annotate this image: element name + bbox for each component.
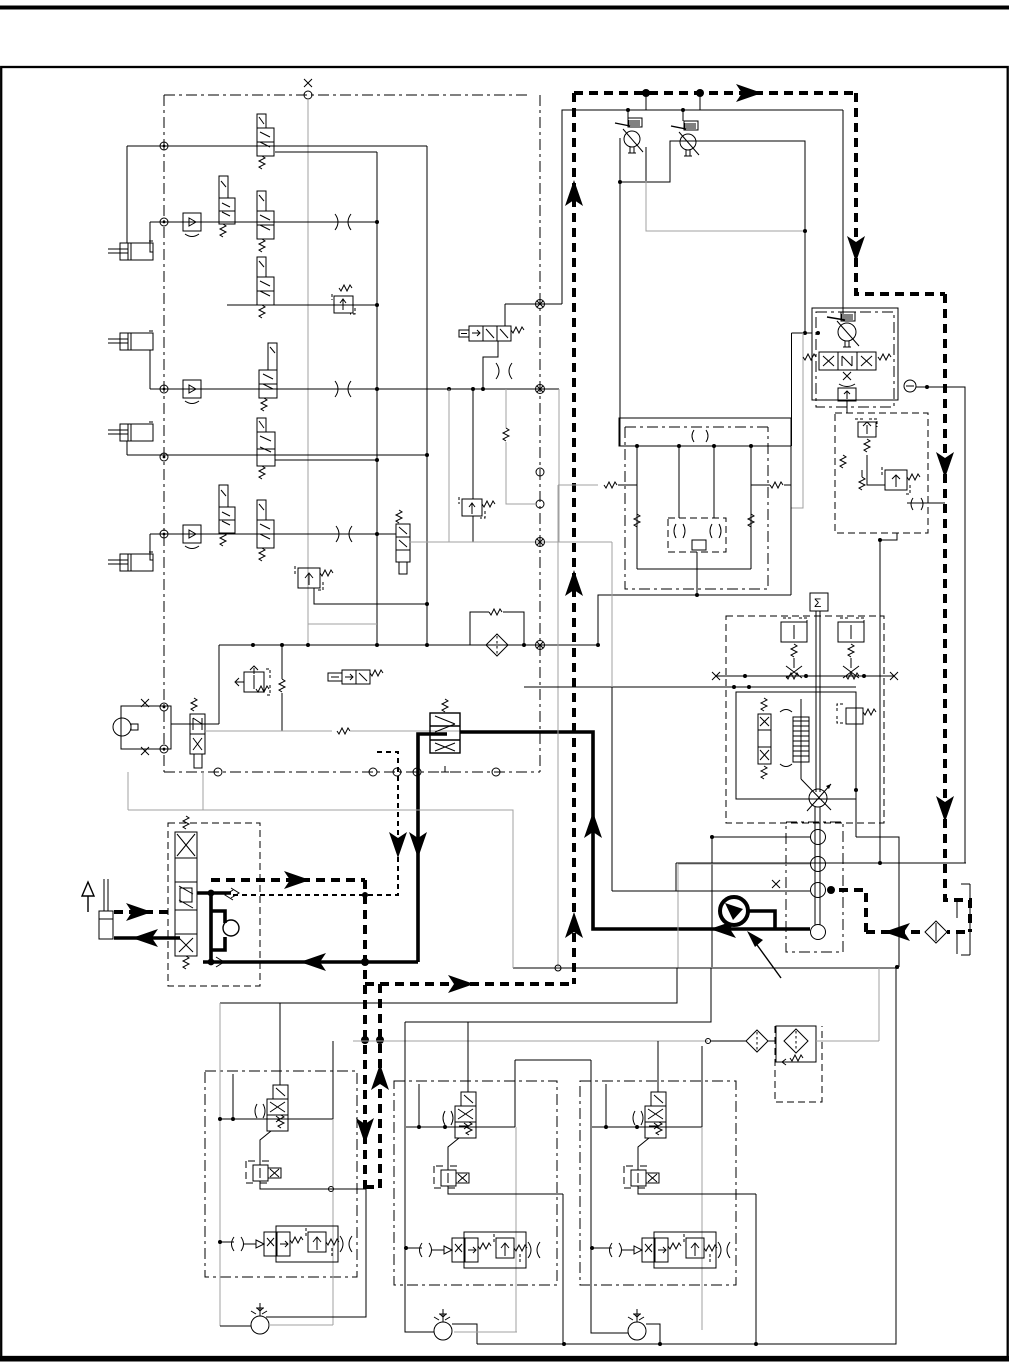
boundary dash-dot top — [164, 94, 528, 96]
junction dots y110 — [626, 108, 630, 112]
ppc internal loop — [211, 911, 225, 950]
junction dots manifold top — [635, 444, 639, 448]
junction dots c2 — [417, 1125, 421, 1129]
valve V9 vertical 3cell — [396, 510, 410, 574]
wire R4 drain — [472, 516, 474, 542]
top rule — [0, 6, 1009, 10]
flow arrow down D4b — [936, 796, 954, 822]
valve V5 — [259, 343, 277, 411]
lever bold return — [114, 936, 180, 940]
restrictor arcs row6 — [336, 526, 352, 542]
relief valve R2 — [295, 566, 333, 590]
pressure reducing valve R3 — [235, 666, 270, 695]
junction dots D5 — [361, 1036, 369, 1044]
wire supply drop — [842, 110, 844, 314]
port circledot row1 — [160, 142, 168, 150]
bold drop from servo net — [418, 734, 447, 962]
wire gray return y1041 — [353, 1040, 708, 1042]
junction dot D4 — [827, 886, 835, 894]
wire y304 — [505, 303, 562, 305]
port circles on bottom boundary — [214, 768, 222, 776]
annotation pointer — [752, 938, 781, 978]
reducing valve PRV2 — [434, 1166, 469, 1188]
wire c1 return drop — [266, 1189, 366, 1317]
wire PRV3 out — [638, 1186, 756, 1194]
solenoid valve H1 — [328, 670, 383, 684]
wire left edge drop — [619, 138, 621, 446]
wire FV1 drop — [260, 1131, 271, 1165]
port circledot row4 — [160, 385, 168, 393]
wire row5b — [275, 459, 377, 461]
wire gray y624 — [308, 623, 377, 625]
wire row3 — [227, 304, 377, 306]
svg-text:Σ: Σ — [814, 596, 821, 610]
junction dots y389 — [447, 387, 451, 391]
wire x880 — [879, 540, 881, 863]
pilot trunk D4 — [945, 294, 970, 932]
junction dots y686 — [732, 685, 736, 689]
restrictor arcs manifold — [692, 430, 708, 442]
gear pump G3 — [811, 883, 826, 898]
wire x896 long right — [756, 968, 896, 1344]
pilot trunk D6 — [211, 878, 365, 882]
bold return bottom — [203, 960, 418, 964]
junction dot row c3 — [590, 1246, 594, 1250]
spring right manifold — [770, 482, 783, 488]
wire c1 right — [332, 1041, 334, 1119]
valve V10 — [190, 698, 205, 768]
wire c2 return drop — [562, 1194, 564, 1344]
wire long y686 — [524, 686, 856, 688]
pilot trunk D4 tail — [831, 890, 866, 932]
wire F2 out gray — [816, 1040, 879, 1042]
wire pilot supply top — [562, 110, 843, 304]
flow arrow up D2c — [565, 912, 583, 938]
circuit2 boundary — [394, 1081, 557, 1285]
control lever — [99, 879, 113, 939]
wire G1 out — [712, 836, 810, 838]
feedback needle — [800, 699, 802, 779]
wire gray v203 — [202, 772, 204, 810]
X mark left — [712, 672, 720, 680]
spring RB2 — [861, 470, 863, 477]
junction dot R5 — [854, 788, 858, 792]
manifold dash-dot inner — [625, 426, 768, 428]
port circle y968 — [555, 965, 561, 971]
valve H2 shuttle — [459, 326, 524, 341]
gauge G1 — [904, 380, 916, 392]
wire mv2 — [678, 446, 680, 518]
wire right edge drop — [791, 333, 793, 446]
wire C4 feed — [150, 534, 153, 560]
port circle x540 a — [536, 468, 544, 476]
wire c3 row feed — [592, 1247, 612, 1249]
ppc gauge circle — [223, 920, 239, 936]
lever pilot dashed D7 — [114, 910, 172, 914]
junction dots x427 — [425, 453, 429, 457]
wire C2 feed — [149, 350, 151, 389]
wire gauge — [916, 387, 965, 863]
valve V4 — [257, 257, 274, 318]
wire R5 drop — [855, 724, 857, 837]
travel relief — [838, 388, 856, 401]
wire C1 rod feed — [150, 222, 153, 252]
wire H2 drop — [483, 341, 498, 389]
junction dots ppc — [208, 890, 215, 897]
restrictor arcs row2 — [335, 214, 351, 230]
junction dot y967 — [895, 965, 899, 969]
flow arrow down D3 — [847, 236, 865, 262]
gear pump G1 — [811, 830, 826, 845]
flow arrow right D7 — [126, 903, 152, 921]
junction dot D1a — [642, 89, 650, 97]
wire G3 out — [612, 890, 810, 892]
wire G3 drop gray — [611, 542, 613, 687]
fan valve row c3 — [610, 1232, 731, 1268]
port circle x540 b — [536, 500, 544, 508]
port circle c1 — [329, 1187, 334, 1192]
flow arrow up D2a — [565, 180, 583, 206]
wire bus x427 — [426, 146, 428, 645]
wire row2 — [150, 221, 377, 223]
gear pump G4 — [811, 925, 826, 940]
drive shaft — [814, 807, 816, 925]
wire pilot bus y645 — [219, 644, 598, 646]
ppc bold column — [209, 893, 213, 962]
valve V7 — [219, 485, 235, 546]
manifold top block — [619, 418, 791, 446]
open arrow port A — [231, 888, 239, 898]
wire cluster drain link — [880, 533, 897, 540]
pilot branch medium dashed — [233, 752, 398, 895]
wire pilot y389 — [377, 388, 559, 390]
flow arrow right D1 — [736, 84, 762, 102]
valve V1 — [257, 114, 274, 169]
relief RB — [882, 467, 920, 494]
wire gray v506 spring — [505, 389, 507, 428]
junction dot block — [618, 180, 622, 184]
restrictor arcs RB — [911, 498, 923, 510]
tick c2 — [418, 1084, 420, 1127]
solenoid valve FV1 — [255, 1085, 288, 1131]
wire to filter — [710, 1040, 746, 1042]
cylinder C2 — [108, 331, 153, 350]
junction dots x377 — [375, 220, 379, 224]
crossed circle y645 — [536, 641, 545, 650]
circuit3 boundary — [580, 1081, 736, 1285]
wire mv3 — [713, 446, 715, 518]
wire cluster drain — [846, 401, 848, 413]
restrictor arcs row4 — [335, 381, 351, 397]
wire FM2 outlet — [452, 1324, 477, 1344]
wire c1 row feed — [219, 1241, 234, 1243]
travel pump boundary — [816, 312, 894, 407]
wire gray y542 — [409, 541, 612, 543]
pilot trunk D2 bottom corner — [365, 982, 574, 986]
check valve CH1 — [183, 213, 201, 237]
wire FM1 left — [220, 1325, 251, 1327]
spring drop x282 — [281, 645, 283, 679]
fan motor FM2 — [434, 1309, 452, 1340]
port circle y1041 — [706, 1039, 711, 1044]
hand pump M1 — [113, 699, 171, 755]
wire gray y731 ext — [396, 730, 540, 732]
wire FM2 gray outlet — [454, 1331, 517, 1333]
wire RB out — [907, 502, 945, 504]
wire v676 — [675, 863, 677, 891]
flow arrow up D5 — [371, 1064, 389, 1090]
wire FV3 pilot up — [657, 1041, 659, 1092]
ppc bold port A — [197, 891, 231, 895]
anticavitation box — [668, 518, 726, 552]
flow arrow left D4 — [884, 923, 910, 941]
wire LS line — [716, 675, 894, 677]
wire row4 — [150, 388, 377, 390]
junction dot y863 — [878, 861, 882, 865]
flow arrow down bold — [409, 832, 427, 858]
servo valve V11 — [430, 699, 460, 772]
crossed circle y389 — [536, 385, 545, 394]
wire H2 top — [504, 304, 506, 326]
reducing valve PRV3 — [624, 1166, 659, 1188]
port circledot M1b — [160, 745, 168, 753]
fan pump P1 — [615, 118, 643, 153]
wire FV3 drop — [638, 1138, 649, 1170]
circuit3 frame — [591, 1060, 628, 1333]
boundary dash-dot right — [539, 95, 541, 772]
open arrow DM end — [225, 890, 233, 900]
wire return trunk y1003 — [220, 968, 677, 1003]
wire c2 link right — [515, 1059, 591, 1061]
wire y645 to x598 — [524, 644, 598, 646]
stem D1a — [645, 93, 647, 110]
wire c1 right gray — [332, 1119, 334, 1325]
servo piston hatched — [793, 717, 809, 762]
check valve CH3 — [183, 525, 201, 549]
junction dot gauge — [925, 385, 929, 389]
flow arrow right D2 — [448, 975, 474, 993]
wire v473 — [472, 389, 474, 499]
fan motor FM1 — [251, 1303, 269, 1334]
cylinder C4 — [108, 552, 153, 571]
wire y595 — [598, 595, 791, 645]
bold pump branch — [749, 911, 775, 929]
gray drop x558 — [557, 485, 559, 790]
pilot trunk D5 left — [363, 880, 367, 1189]
damper spring B — [846, 673, 859, 679]
regulator boundary — [726, 616, 884, 823]
solenoid valve FV2 — [443, 1092, 476, 1138]
wire row5 — [127, 454, 427, 456]
wire manifold bottom — [637, 568, 751, 570]
junction dots c1 — [218, 1117, 222, 1121]
wire G1 drop — [711, 837, 713, 967]
servo spool A — [758, 698, 771, 779]
boundary dash-dot bottom — [164, 771, 540, 773]
feedback lever — [801, 779, 831, 810]
wire x756 — [755, 1194, 757, 1344]
junction dot row c2 — [404, 1246, 408, 1250]
junction dots c3 — [604, 1125, 608, 1129]
port circledot row2 — [160, 218, 168, 226]
wire x646 — [645, 147, 647, 181]
wire bottom bus — [477, 1343, 896, 1345]
valve V6 — [257, 418, 275, 479]
wire gray x803 — [792, 333, 804, 508]
pilot trunk D3 — [856, 93, 945, 294]
pump boundary dash-dot — [786, 822, 843, 952]
wire gray v128 — [127, 772, 129, 810]
wire C3 feed — [126, 441, 128, 455]
wire c2 right gray — [515, 1127, 517, 1332]
wire c2 right — [514, 1060, 516, 1127]
wire row1b — [275, 151, 377, 153]
crossed circle y304 — [536, 300, 545, 309]
wire G2 out — [678, 863, 810, 865]
wire FM1 gray outlet — [269, 1324, 333, 1326]
wire right edge — [790, 446, 792, 595]
port circle — [304, 91, 312, 99]
travel pump P3 — [827, 312, 859, 347]
wire gray case drain — [646, 181, 805, 231]
junction dot row c1 — [218, 1240, 222, 1244]
wire pump block — [620, 138, 805, 333]
border bottom thick — [0, 1356, 1009, 1362]
wire FV1 pilot up — [279, 1003, 281, 1085]
throttle X — [839, 372, 855, 387]
makeup valve — [692, 540, 706, 550]
pilot trunk D2 vertical — [572, 93, 576, 984]
relief RA — [855, 419, 877, 452]
wire row6 — [150, 533, 396, 535]
valve V8 — [257, 500, 274, 561]
wire gray stub — [506, 467, 536, 504]
fan pump P2 — [671, 121, 699, 156]
junction dots bottom — [562, 1342, 566, 1346]
check valve CH2 — [183, 380, 201, 404]
flow arrow down D5 — [356, 1118, 374, 1144]
fan valve row c1 — [232, 1226, 353, 1262]
valve V2 — [219, 176, 235, 237]
wire gray pilot return y731 — [205, 730, 332, 732]
restrictor arcs H2 — [496, 363, 512, 379]
wire gray drop x879 — [878, 968, 880, 1041]
X mark G3 — [772, 880, 780, 888]
junction dot D1b — [696, 89, 704, 97]
junction dots LS — [743, 674, 747, 678]
tick c1 — [232, 1074, 234, 1119]
wire FV2 pilot up — [467, 1022, 469, 1092]
wire M1 to V10 — [171, 723, 219, 725]
travel cluster frame — [812, 308, 898, 400]
wire gray v449 — [448, 389, 450, 542]
wire gray v559 — [558, 389, 560, 542]
relief valve R4 — [459, 497, 495, 518]
pilot return D4c — [866, 930, 970, 934]
wire gray PPC top — [128, 810, 513, 968]
pc valve B — [838, 618, 864, 678]
spring RA2 — [840, 455, 846, 468]
stem D1b — [699, 93, 701, 110]
port circledot M1a — [160, 703, 168, 711]
wire P1 drop — [627, 110, 629, 118]
regulator relief R5 — [837, 704, 876, 724]
cluster boundary — [835, 413, 928, 533]
wire FV2 drop — [448, 1138, 459, 1170]
boundary dash-dot left — [163, 95, 165, 772]
arcs anticav — [674, 524, 721, 538]
variable pump main — [807, 784, 831, 811]
flow arrow up bold — [584, 812, 602, 838]
ppc dashed boundary — [168, 823, 260, 986]
wire c3 right gray — [701, 1127, 703, 1330]
wire mv1 — [636, 446, 638, 569]
flow arrow right D6 — [284, 871, 310, 889]
wire G3 drop — [611, 687, 613, 891]
main pump highlighted — [720, 897, 748, 925]
junction dot x806 — [803, 229, 807, 233]
pc valve A — [781, 618, 807, 678]
manifold boundary dash-dot — [625, 427, 768, 589]
wire gray center drop — [307, 99, 309, 645]
junction dots y645 — [251, 643, 255, 647]
junction dot x805b — [803, 331, 807, 335]
flow arrow down DM — [389, 832, 407, 858]
circuit1 boundary — [205, 1071, 357, 1277]
sigma shaft — [815, 611, 817, 792]
ppc valve stack — [175, 816, 197, 969]
cylinder C1 — [108, 241, 153, 260]
wire v219 — [218, 645, 220, 724]
wire c3 top bus — [592, 1126, 702, 1128]
port circledot row6 — [160, 530, 168, 538]
wire return trunk y1022 — [405, 968, 711, 1022]
spring v right — [748, 514, 754, 527]
wire c2 row feed — [406, 1247, 422, 1249]
wire row1 — [127, 145, 427, 147]
crossed circle y542 — [536, 538, 545, 547]
wire manifold drain — [696, 552, 698, 595]
wire c2 top bus — [406, 1126, 515, 1128]
spring left manifold — [558, 484, 598, 486]
ppc open arrow bottom — [216, 957, 224, 967]
pilot trunk D5 bottom — [365, 1185, 380, 1189]
wire right loop top — [676, 862, 966, 864]
tick c3 — [605, 1084, 607, 1127]
wire FM3 out — [646, 1324, 660, 1344]
fan motor FM3 — [628, 1309, 646, 1340]
pilot trunk D1 top — [574, 91, 856, 95]
wire PRV2 out — [448, 1186, 563, 1194]
spring check y731 — [337, 728, 350, 734]
wire tank leg — [856, 837, 899, 967]
valve V3 — [257, 191, 274, 252]
reducing valve PRV1 — [246, 1161, 281, 1183]
tank T1 — [957, 884, 970, 955]
wire P2 drop — [682, 110, 684, 121]
solenoid valve FV3 — [633, 1092, 666, 1138]
bleed spring y612 — [470, 612, 489, 645]
hollow arrow symbol — [82, 882, 94, 912]
wire R2 drain — [314, 588, 427, 604]
wire bus x377 — [376, 152, 378, 645]
suction filter F3 — [925, 921, 947, 943]
wire F2 link — [768, 1040, 776, 1042]
node X vent — [304, 79, 312, 87]
fan valve row c2 — [420, 1232, 541, 1268]
damper spring A — [786, 673, 799, 679]
wire gray v558 bottom — [557, 790, 559, 968]
